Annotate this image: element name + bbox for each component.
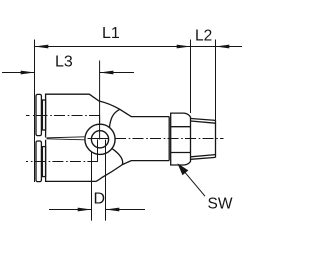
dimension line D left part with arrow — [49, 209, 92, 211]
boss lower center mark to lower axis — [97, 139, 99, 161]
svg-text:L3: L3 — [55, 54, 73, 71]
arrow L1 left — [35, 45, 49, 49]
dimension line L3 right part with arrow — [100, 72, 134, 74]
thread root bottom — [191, 155, 216, 157]
thread crest top — [191, 119, 216, 121]
svg-text:L1: L1 — [102, 25, 120, 42]
upper collet step — [42, 100, 45, 130]
washer face line — [168, 117, 170, 161]
lower tube port centerline — [26, 161, 98, 163]
dimension line D right part with arrow — [106, 209, 146, 211]
arrow L2 right (outside) — [216, 45, 230, 49]
SW leader line — [185, 172, 206, 196]
SW leader arrowhead — [177, 163, 188, 175]
upper tube port centerline — [26, 115, 100, 117]
body wedge slit upper line — [47, 137, 85, 138]
extension line L3 to branch axis — [99, 61, 101, 140]
svg-text:L2: L2 — [195, 28, 212, 45]
lower collet cap — [36, 141, 41, 182]
upper collet cap — [36, 94, 41, 135]
thread root top — [191, 121, 216, 123]
lower collet step — [42, 147, 45, 177]
boss vertical center mark — [99, 116, 101, 140]
boss horizontal centerline across — [88, 138, 109, 140]
upper notch curve to boss — [109, 109, 119, 127]
D extension line left — [91, 152, 93, 221]
main axis centerline — [88, 138, 224, 140]
svg-text:SW: SW — [208, 196, 233, 213]
boss inner circle — [91, 131, 108, 148]
extension line hex right face — [190, 40, 192, 114]
extension line thread end — [215, 40, 217, 121]
lower notch lobe curve to boss — [112, 149, 122, 165]
arrow L1 right — [177, 45, 191, 49]
thread crest bottom — [191, 157, 216, 159]
dimension line L3 left part with arrow — [2, 72, 35, 74]
dimension line L1/L2 — [35, 46, 243, 48]
hex face line lower — [171, 152, 191, 154]
lower body outline — [46, 140, 170, 182]
body wedge slit lower line — [47, 139, 85, 140]
boss outer circle — [85, 124, 115, 154]
svg-text:D: D — [94, 191, 106, 208]
D extension line right — [105, 140, 107, 221]
extension line left (tube face) — [34, 40, 36, 183]
hex nut outline — [171, 113, 191, 165]
hex face line upper — [171, 126, 191, 128]
thread end face — [215, 120, 217, 157]
upper body outline — [46, 94, 170, 137]
